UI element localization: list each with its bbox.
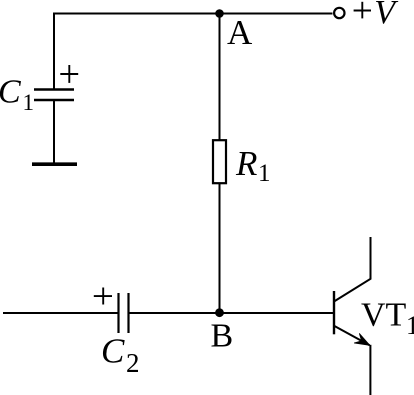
svg-text:1: 1 (258, 160, 271, 187)
svg-text:B: B (211, 318, 234, 355)
svg-text:C: C (0, 74, 21, 111)
svg-text:C: C (101, 332, 125, 371)
svg-text:2: 2 (126, 348, 140, 378)
svg-text:A: A (227, 13, 253, 52)
svg-text:1: 1 (23, 90, 35, 115)
svg-text:1: 1 (406, 311, 414, 340)
svg-text:V: V (374, 0, 399, 31)
svg-text:VT: VT (361, 297, 407, 334)
svg-text:R: R (235, 144, 257, 183)
